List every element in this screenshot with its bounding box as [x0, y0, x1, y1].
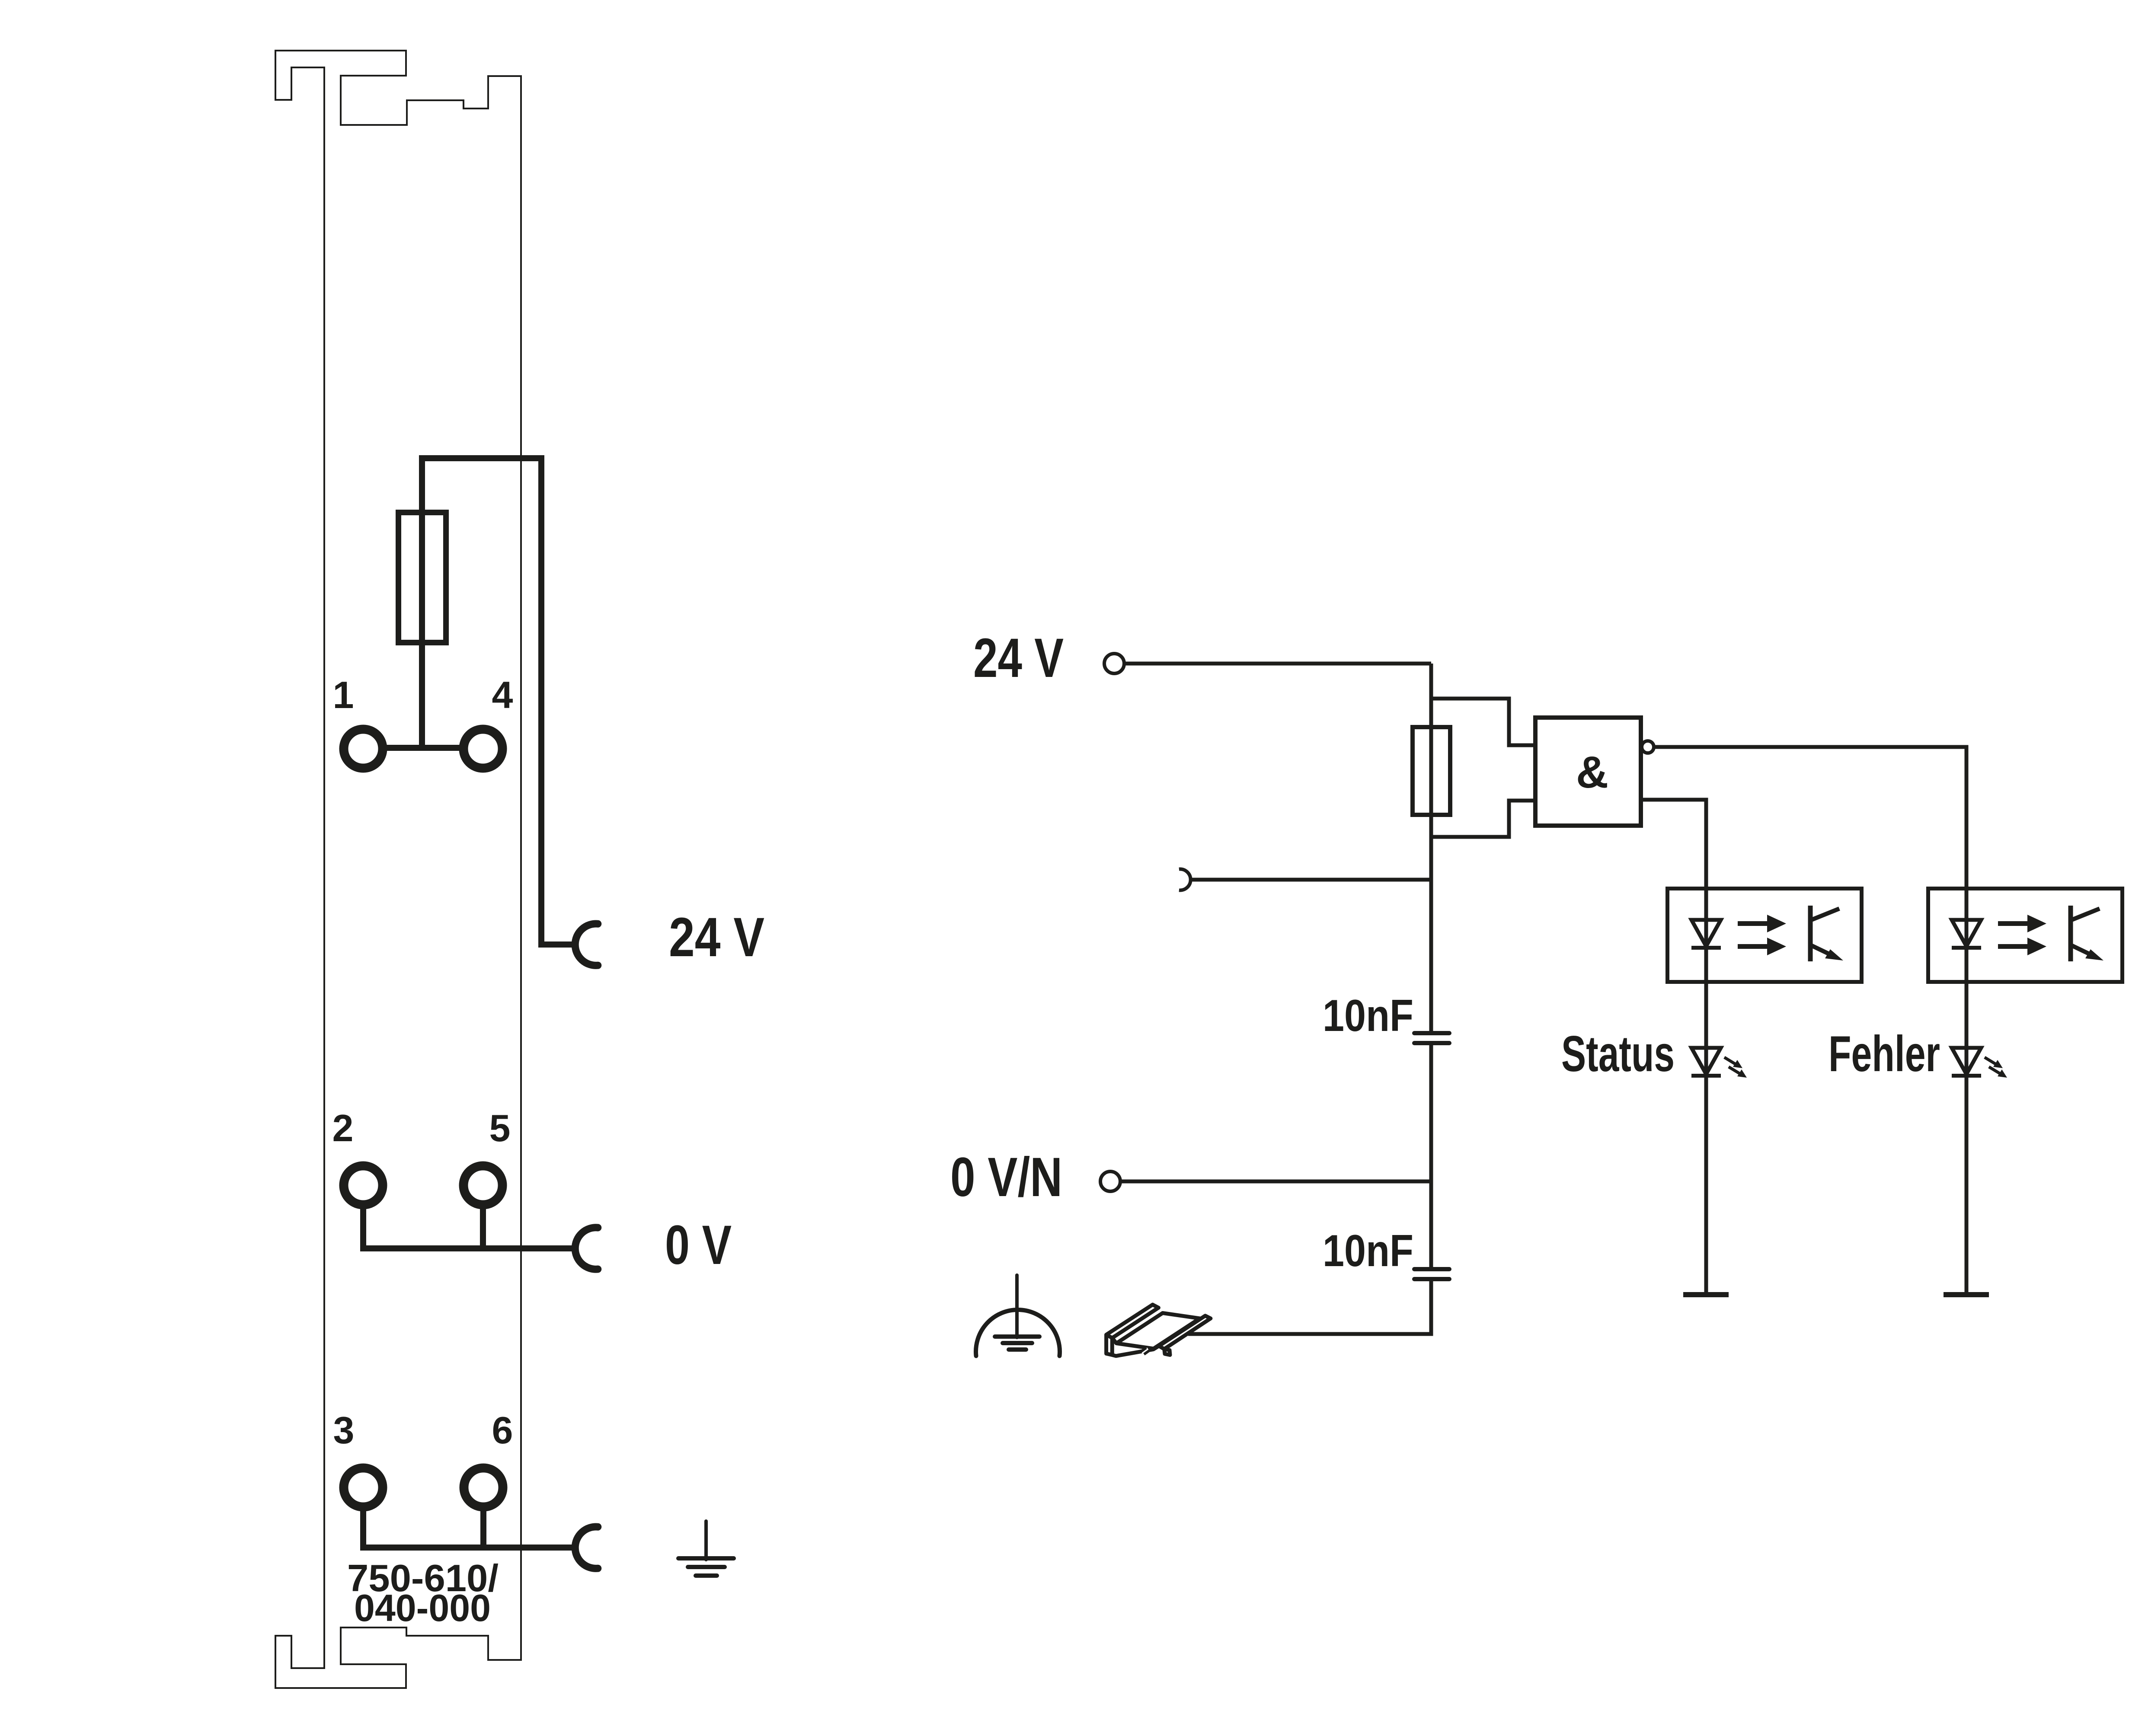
contact 4	[464, 729, 502, 768]
gate U1 & box	[1535, 718, 1641, 826]
wire contacts 2-5 to 0V clamp	[360, 1245, 576, 1251]
clamp 0V arc	[575, 1228, 598, 1269]
wire gate output to Fehler opto	[1654, 747, 1966, 887]
phototransistor Fehler	[2068, 906, 2073, 961]
earth symbol with dome	[976, 1275, 1060, 1356]
wire 24V input	[1125, 662, 1431, 666]
terminal 0 V/N	[1100, 1171, 1120, 1191]
svg-text:Fehler: Fehler	[1829, 1025, 1940, 1082]
wire to 24V clamp	[541, 455, 576, 945]
data contact arc	[1179, 869, 1191, 890]
optocoupler U3 box (Fehler)	[1928, 889, 2123, 982]
svg-text:24 V: 24 V	[669, 906, 764, 968]
svg-text:4: 4	[492, 673, 513, 716]
rail near rise	[1154, 1346, 1159, 1349]
svg-text:040-000: 040-000	[354, 1586, 491, 1629]
module outline 750-610 bus coupler body	[275, 51, 521, 1688]
svg-text:1: 1	[333, 673, 354, 716]
wire fuse vertical	[419, 455, 425, 748]
LED Status indicator	[1691, 1048, 1721, 1074]
svg-text:0 V/N: 0 V/N	[950, 1146, 1062, 1208]
ground bar Fehler	[1944, 1292, 1989, 1297]
svg-text:&: &	[1576, 747, 1608, 798]
contact 6	[464, 1468, 503, 1507]
rail near end left foot	[1106, 1335, 1112, 1355]
inverter bubble	[1642, 741, 1654, 753]
wire contacts 3-6 to earth clamp	[360, 1545, 576, 1551]
wire contacts 1-4	[363, 745, 483, 751]
phototransistor Status	[1808, 906, 1813, 961]
svg-text:24 V: 24 V	[973, 627, 1064, 689]
contact 2	[344, 1166, 383, 1205]
arrows Status opto	[1738, 915, 1786, 955]
wire branch lower to gate	[1431, 801, 1535, 837]
capacitor C2 10nF	[1414, 1267, 1449, 1271]
capacitor C1 10nF	[1414, 1031, 1449, 1035]
wire through Status opto	[1704, 887, 1708, 1292]
contact 1	[344, 729, 383, 768]
wire through Fehler opto	[1965, 887, 1969, 1292]
rail near bottom edge	[1112, 1346, 1159, 1356]
svg-text:10nF: 10nF	[1323, 991, 1413, 1041]
node bus bottom to rail	[1188, 1279, 1431, 1334]
rail near slope	[1112, 1338, 1116, 1343]
fuse F1 (module)	[399, 513, 446, 643]
wire 0V/N input	[1121, 1180, 1431, 1184]
stub contact 2	[360, 1185, 366, 1248]
svg-text:Status: Status	[1561, 1025, 1675, 1082]
optocoupler U2 box (Status)	[1668, 889, 1862, 982]
stub contact 6	[480, 1487, 486, 1548]
terminal 24 V	[1104, 654, 1124, 673]
svg-text:3: 3	[333, 1409, 355, 1452]
wire top feed inside module	[419, 455, 541, 461]
svg-text:2: 2	[332, 1107, 354, 1149]
rail near end right foot	[1164, 1349, 1170, 1355]
DIN rail 3D symbol	[1106, 1305, 1211, 1356]
clamp earth arc	[575, 1527, 598, 1568]
stub contact 3	[360, 1487, 366, 1548]
svg-text:6: 6	[492, 1409, 513, 1452]
wire branch upper to gate	[1431, 699, 1535, 745]
stub contact 5	[480, 1185, 486, 1248]
wire gate to Status opto	[1641, 800, 1706, 887]
ground bar Status	[1683, 1292, 1729, 1297]
rail left flange bar	[1106, 1305, 1159, 1338]
rail right flange bar	[1159, 1316, 1211, 1349]
node bus 24V	[1429, 664, 1433, 1033]
earth symbol (module)	[678, 1521, 734, 1576]
svg-text:5: 5	[489, 1107, 511, 1149]
rail base web	[1116, 1313, 1200, 1349]
contact 5	[464, 1166, 502, 1205]
svg-text:0 V: 0 V	[665, 1214, 732, 1276]
clamp 24V arc	[575, 924, 598, 965]
LED in Status opto	[1691, 920, 1721, 946]
fuse F1 (schematic)	[1413, 727, 1450, 815]
svg-text:10nF: 10nF	[1323, 1226, 1413, 1276]
rail notch	[1142, 1349, 1148, 1353]
LED in Fehler opto	[1952, 920, 1981, 946]
node bus mid	[1429, 1043, 1433, 1269]
LED Fehler indicator	[1952, 1048, 1981, 1074]
wire data contact to bus	[1192, 878, 1431, 882]
arrows Fehler opto	[1998, 915, 2046, 955]
contact 3	[344, 1468, 383, 1507]
